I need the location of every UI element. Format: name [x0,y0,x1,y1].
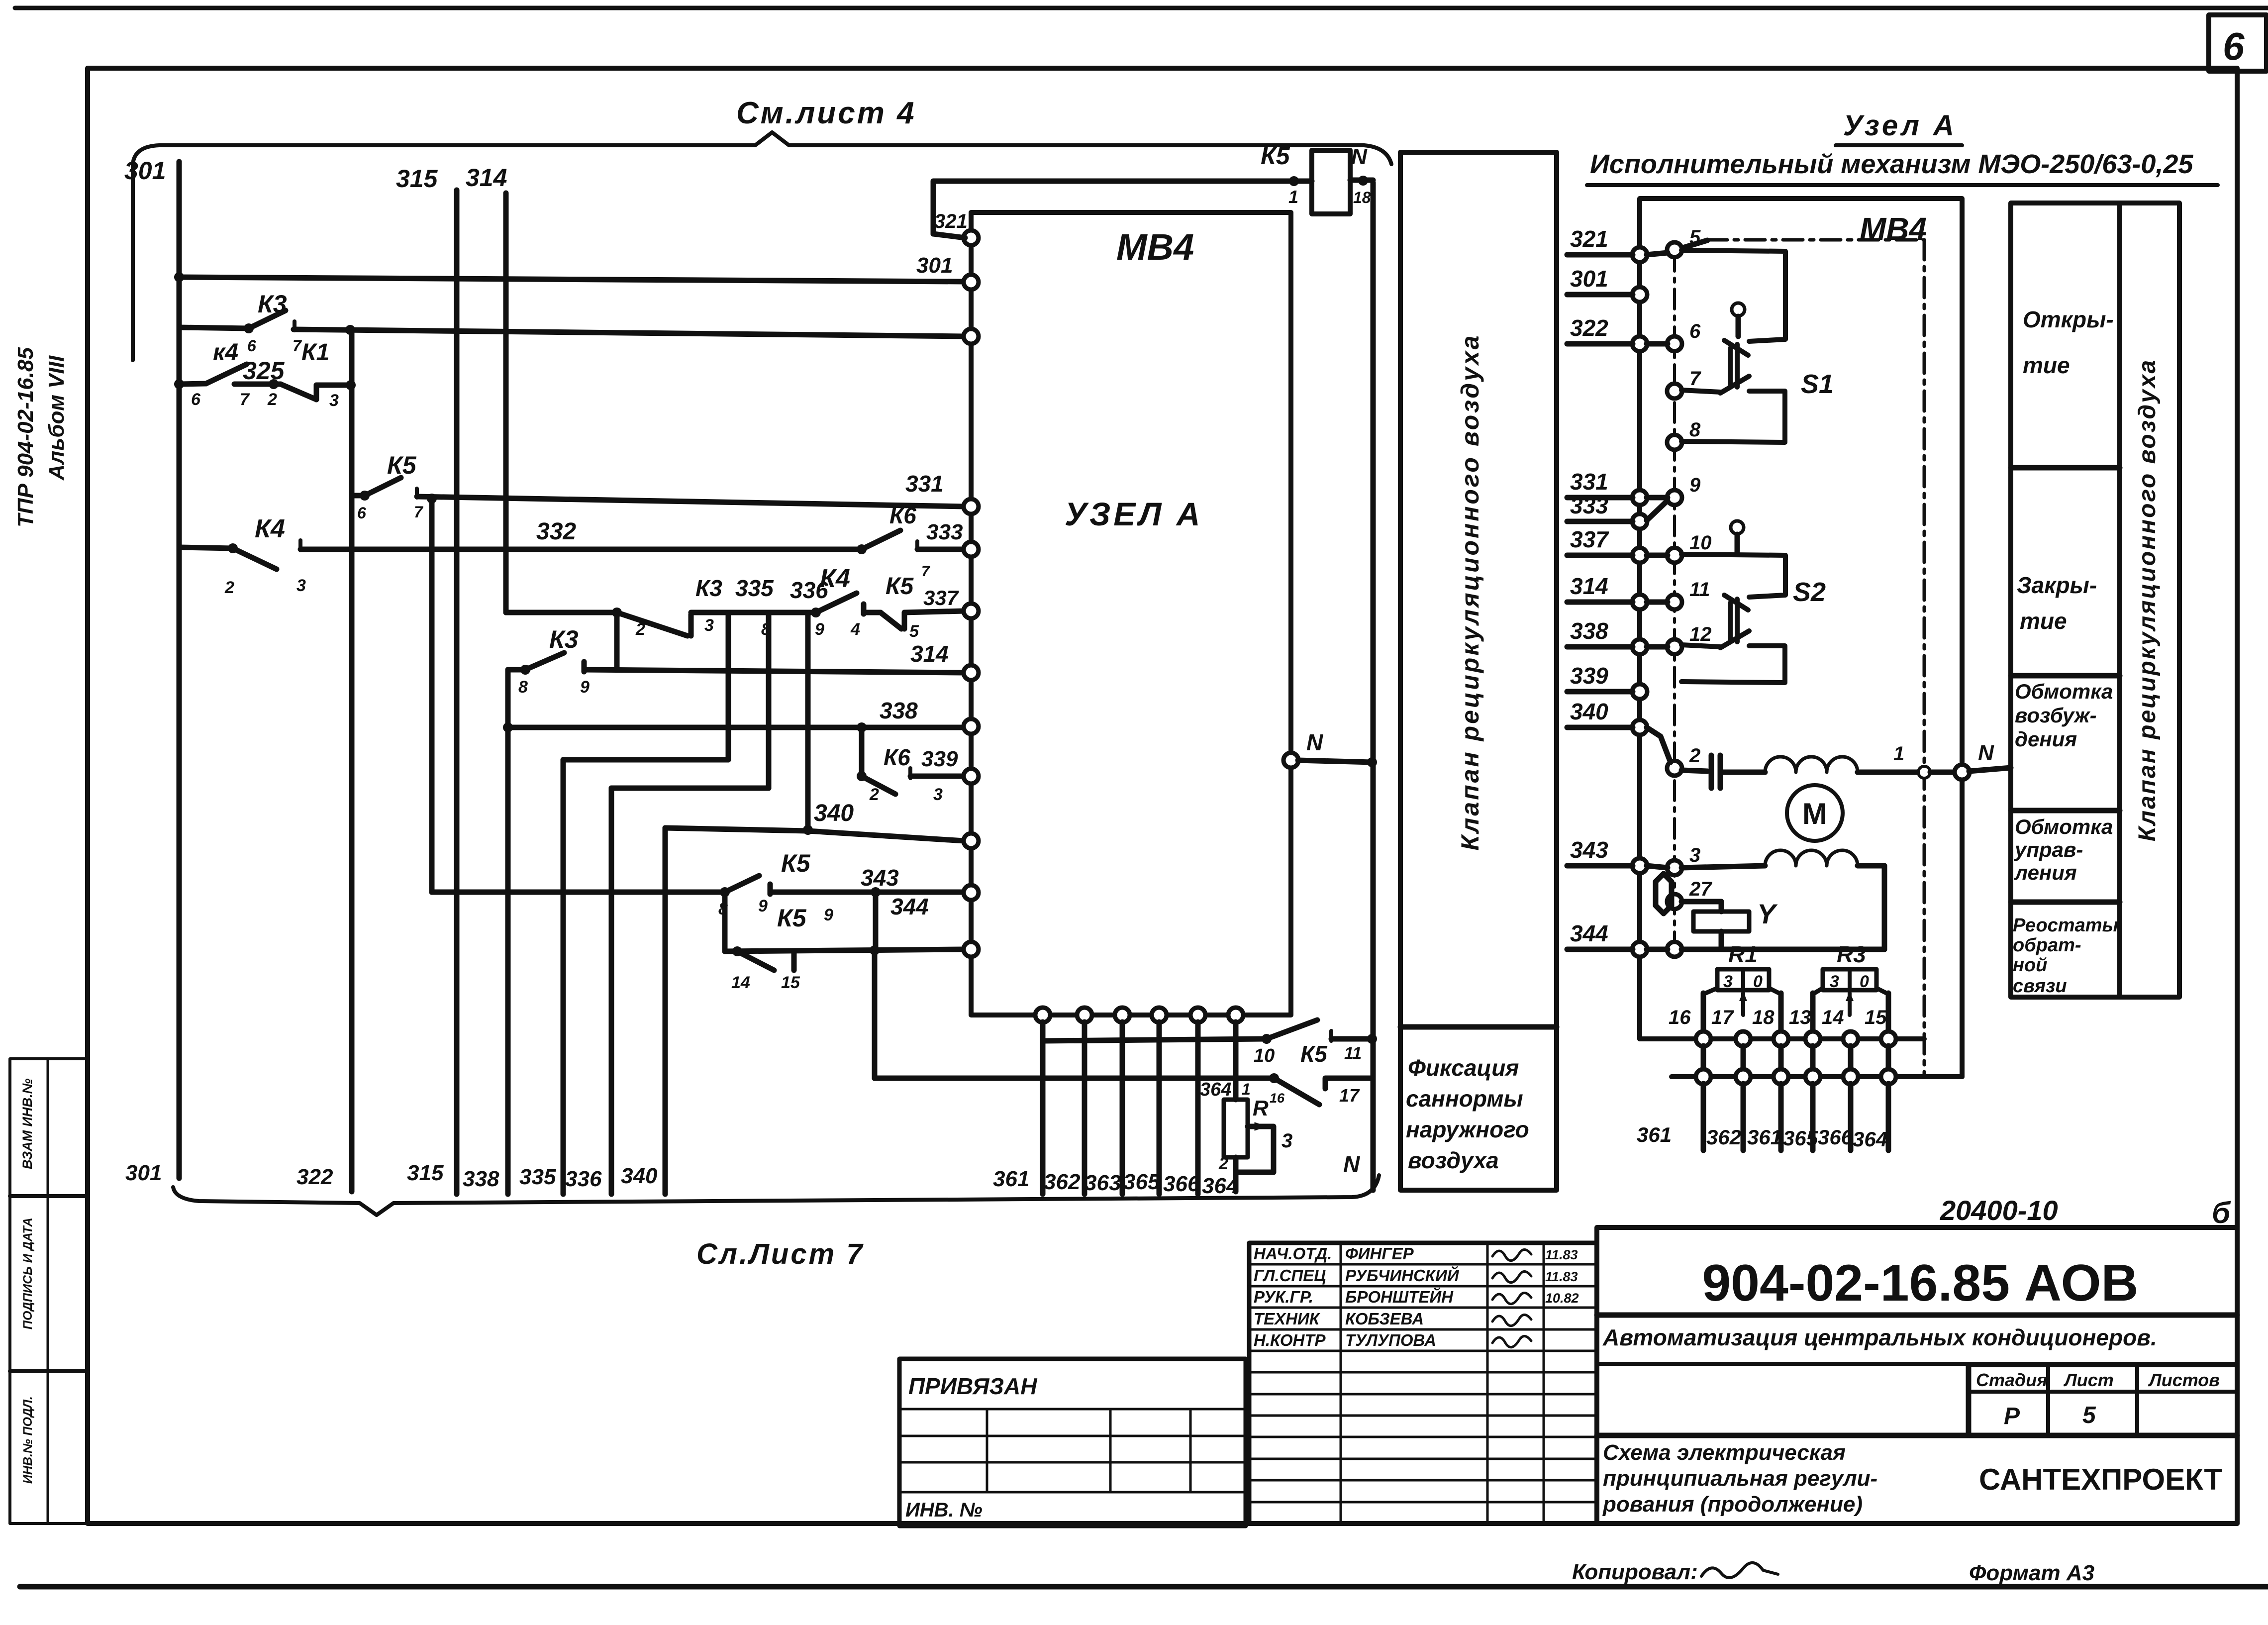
svg-text:Схема электрическая: Схема электрическая [1603,1440,1846,1465]
svg-text:10: 10 [1254,1045,1275,1066]
svg-text:343: 343 [1570,837,1608,863]
svg-text:11.83: 11.83 [1545,1247,1578,1262]
svg-text:337: 337 [1570,526,1609,552]
svg-text:338: 338 [1570,618,1608,644]
svg-text:К3: К3 [549,625,579,653]
svg-text:принципиальная регули-: принципиальная регули- [1603,1466,1877,1491]
svg-text:13: 13 [1789,1007,1811,1028]
svg-text:ПРИВЯЗАН: ПРИВЯЗАН [908,1373,1037,1399]
svg-text:Альбом VIII: Альбом VIII [44,355,69,481]
svg-text:361: 361 [993,1167,1029,1191]
svg-text:К4: К4 [255,514,285,543]
svg-text:1: 1 [1893,743,1904,765]
svg-text:344: 344 [1570,920,1608,946]
svg-text:365: 365 [1783,1126,1818,1150]
svg-text:339: 339 [1570,663,1608,689]
svg-text:ИНВ.№ ПОДЛ.: ИНВ.№ ПОДЛ. [21,1396,35,1484]
svg-text:321: 321 [1570,226,1608,252]
svg-text:364: 364 [1202,1174,1238,1198]
svg-text:ПОДПИСЬ И ДАТА: ПОДПИСЬ И ДАТА [21,1218,35,1329]
svg-text:27: 27 [1689,878,1712,900]
svg-text:Исполнительный механизм МЭО-2: Исполнительный механизм МЭО-250/63-0,25 [1590,149,2193,179]
svg-text:331: 331 [905,471,944,497]
svg-text:2: 2 [224,578,234,597]
svg-text:ГЛ.СПЕЦ: ГЛ.СПЕЦ [1254,1266,1326,1285]
svg-text:10: 10 [1689,532,1712,554]
svg-text:возбуж-: возбуж- [2015,704,2097,727]
svg-text:7: 7 [240,390,250,409]
svg-text:Фиксация: Фиксация [1408,1055,1519,1081]
svg-text:К5: К5 [777,904,807,932]
svg-text:S2: S2 [1793,577,1826,607]
svg-text:управ-: управ- [2014,838,2083,861]
svg-text:К5: К5 [781,849,811,877]
svg-text:365: 365 [1123,1170,1160,1194]
svg-text:18: 18 [1752,1007,1775,1028]
svg-text:11.83: 11.83 [1545,1269,1578,1284]
svg-text:К6: К6 [884,744,910,770]
svg-text:18: 18 [1353,189,1371,206]
svg-text:4: 4 [850,620,860,639]
svg-text:Реостаты: Реостаты [2013,915,2118,936]
svg-text:3: 3 [296,576,306,595]
svg-text:обрат-: обрат- [2013,935,2081,956]
svg-text:364: 364 [1853,1127,1887,1151]
svg-text:рования (продолжение): рования (продолжение) [1602,1492,1863,1517]
svg-text:6: 6 [1689,320,1701,342]
svg-text:Лист: Лист [2063,1370,2114,1390]
svg-text:904-02-16.85 АОВ: 904-02-16.85 АОВ [1702,1254,2138,1312]
svg-text:14: 14 [731,973,750,992]
svg-text:К4: К4 [820,564,850,593]
svg-text:К5: К5 [387,451,417,479]
svg-text:301: 301 [916,253,953,278]
svg-text:2: 2 [1689,745,1700,767]
svg-text:17: 17 [1339,1085,1360,1106]
svg-text:3: 3 [1282,1130,1292,1152]
svg-text:366: 366 [1163,1172,1200,1196]
svg-text:К3: К3 [258,290,287,318]
svg-text:363: 363 [1085,1171,1121,1195]
svg-text:322: 322 [296,1165,333,1189]
svg-text:315: 315 [396,165,438,193]
svg-text:340: 340 [814,800,854,826]
svg-text:R: R [1253,1096,1269,1120]
svg-text:НАЧ.ОТД.: НАЧ.ОТД. [1254,1244,1332,1263]
svg-text:7: 7 [293,337,302,355]
svg-text:воздуха: воздуха [1408,1147,1499,1173]
svg-text:338: 338 [463,1167,499,1191]
svg-text:ФИНГЕР: ФИНГЕР [1345,1244,1414,1263]
svg-text:11: 11 [1689,579,1710,601]
svg-text:Закры-: Закры- [2017,572,2097,598]
svg-text:тие: тие [2020,608,2067,634]
svg-text:340: 340 [621,1164,658,1188]
svg-text:РУК.ГР.: РУК.ГР. [1254,1288,1313,1306]
svg-text:339: 339 [921,747,958,771]
svg-text:362: 362 [1706,1125,1741,1149]
svg-text:336: 336 [565,1167,602,1191]
svg-text:САНТЕХПРОЕКТ: САНТЕХПРОЕКТ [1979,1463,2222,1496]
svg-text:N: N [1351,145,1368,169]
svg-text:3: 3 [704,616,714,635]
svg-text:R1: R1 [1728,941,1758,967]
svg-text:5: 5 [909,622,919,641]
svg-text:3: 3 [329,391,339,410]
svg-text:301: 301 [125,1161,162,1185]
svg-text:301: 301 [1570,266,1608,292]
svg-text:Р: Р [2004,1403,2020,1429]
svg-text:2: 2 [1218,1154,1228,1173]
svg-text:ления: ления [2014,861,2077,884]
svg-text:2: 2 [635,620,645,639]
svg-text:Клапан рециркуляционного в: Клапан рециркуляционного воздуха [1456,334,1484,851]
svg-text:6: 6 [191,390,201,409]
svg-text:366: 366 [1818,1125,1853,1149]
svg-text:Копировал:: Копировал: [1572,1560,1698,1584]
svg-text:R3: R3 [1837,941,1866,967]
svg-text:338: 338 [880,698,918,723]
svg-text:РУБЧИНСКИЙ: РУБЧИНСКИЙ [1345,1266,1460,1285]
svg-text:16: 16 [1270,1091,1285,1106]
svg-text:14: 14 [1822,1007,1844,1028]
svg-text:Н.КОНТР: Н.КОНТР [1254,1331,1326,1349]
svg-text:337: 337 [923,586,959,609]
svg-text:N: N [1343,1151,1360,1177]
svg-text:7: 7 [921,563,930,580]
svg-text:М: М [1802,797,1827,830]
svg-text:БРОНШТЕЙН: БРОНШТЕЙН [1345,1287,1454,1306]
svg-text:1: 1 [1242,1080,1251,1098]
svg-text:7: 7 [1689,368,1701,390]
svg-text:3: 3 [933,785,943,804]
svg-text:8: 8 [1689,419,1701,441]
svg-text:наружного: наружного [1406,1117,1529,1142]
svg-text:Листов: Листов [2148,1370,2220,1390]
svg-text:б: б [2212,1196,2231,1229]
svg-text:5: 5 [2082,1402,2096,1428]
svg-text:362: 362 [1044,1170,1081,1194]
svg-text:См.лист 4: См.лист 4 [736,96,916,130]
svg-text:364: 364 [1200,1079,1231,1100]
svg-text:К1: К1 [301,339,329,366]
svg-text:КОБЗЕВА: КОБЗЕВА [1345,1310,1424,1328]
svg-text:11: 11 [1344,1044,1362,1063]
svg-text:К6: К6 [889,503,916,528]
svg-text:3: 3 [1830,972,1839,991]
svg-text:Стадия: Стадия [1976,1370,2047,1390]
svg-text:9: 9 [1689,474,1701,496]
svg-text:331: 331 [1570,469,1608,495]
svg-text:7: 7 [414,503,424,521]
svg-text:К5: К5 [1261,142,1290,170]
svg-text:333: 333 [926,520,963,544]
svg-text:УЗЕЛ А: УЗЕЛ А [1065,496,1203,532]
svg-text:15: 15 [1865,1007,1887,1028]
svg-text:МВ4: МВ4 [1116,226,1194,268]
svg-text:314: 314 [910,641,949,667]
svg-text:ТУЛУПОВА: ТУЛУПОВА [1345,1331,1436,1349]
svg-text:335: 335 [735,575,774,601]
svg-text:9: 9 [824,906,833,924]
svg-text:к4: к4 [213,339,238,366]
svg-text:ТПР 904-02-16.85: ТПР 904-02-16.85 [13,347,38,527]
svg-text:ИНВ. №: ИНВ. № [905,1499,983,1521]
svg-text:Сл.Лист 7: Сл.Лист 7 [696,1238,865,1270]
svg-text:301: 301 [124,157,166,185]
svg-text:6: 6 [247,337,256,355]
svg-text:5: 5 [1689,226,1701,248]
svg-text:3: 3 [1689,844,1700,866]
svg-text:0: 0 [1860,972,1869,991]
svg-text:344: 344 [890,894,929,919]
svg-text:16: 16 [1669,1007,1691,1028]
svg-text:12: 12 [1689,623,1712,645]
svg-text:3: 3 [1723,972,1733,991]
svg-text:9: 9 [758,897,768,915]
svg-text:321: 321 [934,210,968,232]
svg-text:Формат А3: Формат А3 [1969,1561,2094,1585]
svg-text:361: 361 [1637,1123,1672,1146]
svg-text:2: 2 [869,785,879,804]
svg-text:9: 9 [580,678,590,697]
svg-text:0: 0 [1753,972,1763,991]
svg-text:Клапан рециркуляционного в: Клапан рециркуляционного воздуха [2134,359,2161,842]
svg-text:Обмотка: Обмотка [2015,680,2113,703]
svg-text:Узел А: Узел А [1843,109,1957,142]
svg-text:335: 335 [519,1165,556,1189]
svg-text:Откры-: Откры- [2023,306,2114,332]
svg-text:10.82: 10.82 [1545,1291,1579,1306]
svg-text:ТЕХНИК: ТЕХНИК [1254,1310,1321,1328]
svg-text:N: N [1306,729,1323,755]
svg-text:6: 6 [357,504,366,522]
svg-text:S1: S1 [1801,369,1834,399]
svg-text:Y: Y [1757,898,1778,929]
svg-text:N: N [1978,741,1994,765]
svg-text:15: 15 [781,973,800,992]
svg-text:361: 361 [1747,1125,1782,1149]
svg-text:332: 332 [536,518,576,545]
svg-text:333: 333 [1570,493,1608,518]
svg-text:ВЗАМ ИНВ.№: ВЗАМ ИНВ.№ [20,1078,35,1169]
svg-text:К5: К5 [1300,1041,1328,1067]
svg-text:325: 325 [243,357,285,385]
svg-text:20400-10: 20400-10 [1940,1195,2058,1226]
svg-text:саннормы: саннормы [1406,1086,1523,1112]
svg-text:Обмотка: Обмотка [2015,815,2113,838]
svg-text:315: 315 [407,1161,444,1185]
svg-text:6: 6 [2223,24,2245,68]
svg-text:К3: К3 [695,575,722,601]
svg-text:2: 2 [267,390,277,409]
svg-text:17: 17 [1711,1007,1734,1028]
svg-text:314: 314 [466,164,507,192]
svg-text:Автоматизация центральных конд: Автоматизация центральных кондиционеров. [1602,1324,2157,1350]
svg-text:340: 340 [1570,699,1608,724]
svg-text:9: 9 [815,620,824,639]
svg-text:дения: дения [2015,727,2077,751]
svg-text:тие: тие [2023,352,2070,378]
svg-text:1: 1 [1288,187,1298,207]
svg-text:ной: ной [2013,955,2047,976]
svg-text:8: 8 [518,678,528,697]
svg-text:связи: связи [2013,976,2067,997]
svg-text:К5: К5 [886,573,914,600]
svg-text:343: 343 [861,865,899,891]
svg-text:322: 322 [1570,315,1608,341]
svg-text:314: 314 [1570,573,1608,599]
